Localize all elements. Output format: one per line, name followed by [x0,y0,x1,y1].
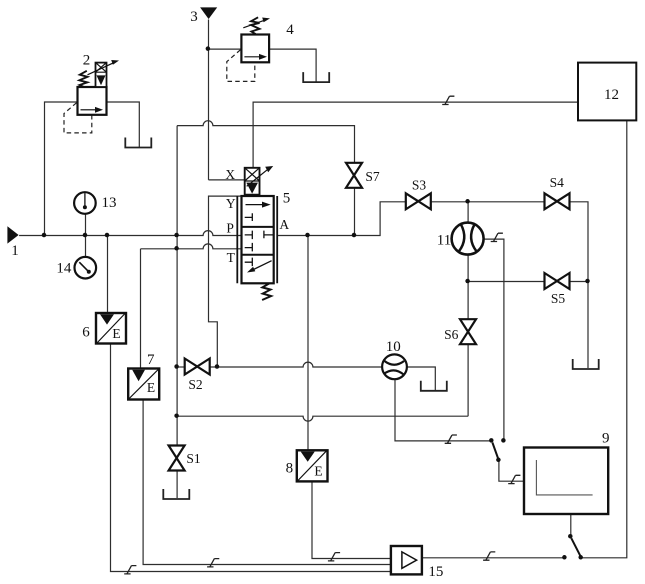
svg-text:T: T [227,250,236,265]
svg-text:5: 5 [283,191,291,207]
svg-text:A: A [279,217,289,232]
svg-text:Y: Y [226,196,236,211]
svg-text:E: E [112,326,120,341]
svg-text:S2: S2 [188,377,202,392]
svg-text:2: 2 [83,53,91,69]
svg-text:13: 13 [102,195,117,211]
svg-text:9: 9 [602,431,610,447]
svg-text:X: X [225,167,235,182]
svg-text:P: P [226,221,234,236]
svg-text:S4: S4 [550,175,565,190]
svg-text:8: 8 [286,461,294,477]
svg-text:12: 12 [604,87,619,103]
svg-text:11: 11 [437,233,451,249]
svg-text:S1: S1 [186,451,200,466]
svg-text:1: 1 [11,243,19,259]
svg-text:15: 15 [428,564,443,580]
svg-text:3: 3 [190,9,198,25]
svg-text:4: 4 [286,22,294,38]
svg-text:10: 10 [386,339,401,355]
svg-text:S3: S3 [412,178,427,193]
svg-text:S5: S5 [551,291,566,306]
svg-text:6: 6 [82,325,90,341]
svg-text:14: 14 [56,261,72,277]
svg-text:E: E [147,380,155,395]
svg-text:E: E [314,464,322,479]
svg-text:S6: S6 [444,327,459,342]
svg-text:S7: S7 [365,169,380,184]
svg-text:7: 7 [147,352,155,368]
